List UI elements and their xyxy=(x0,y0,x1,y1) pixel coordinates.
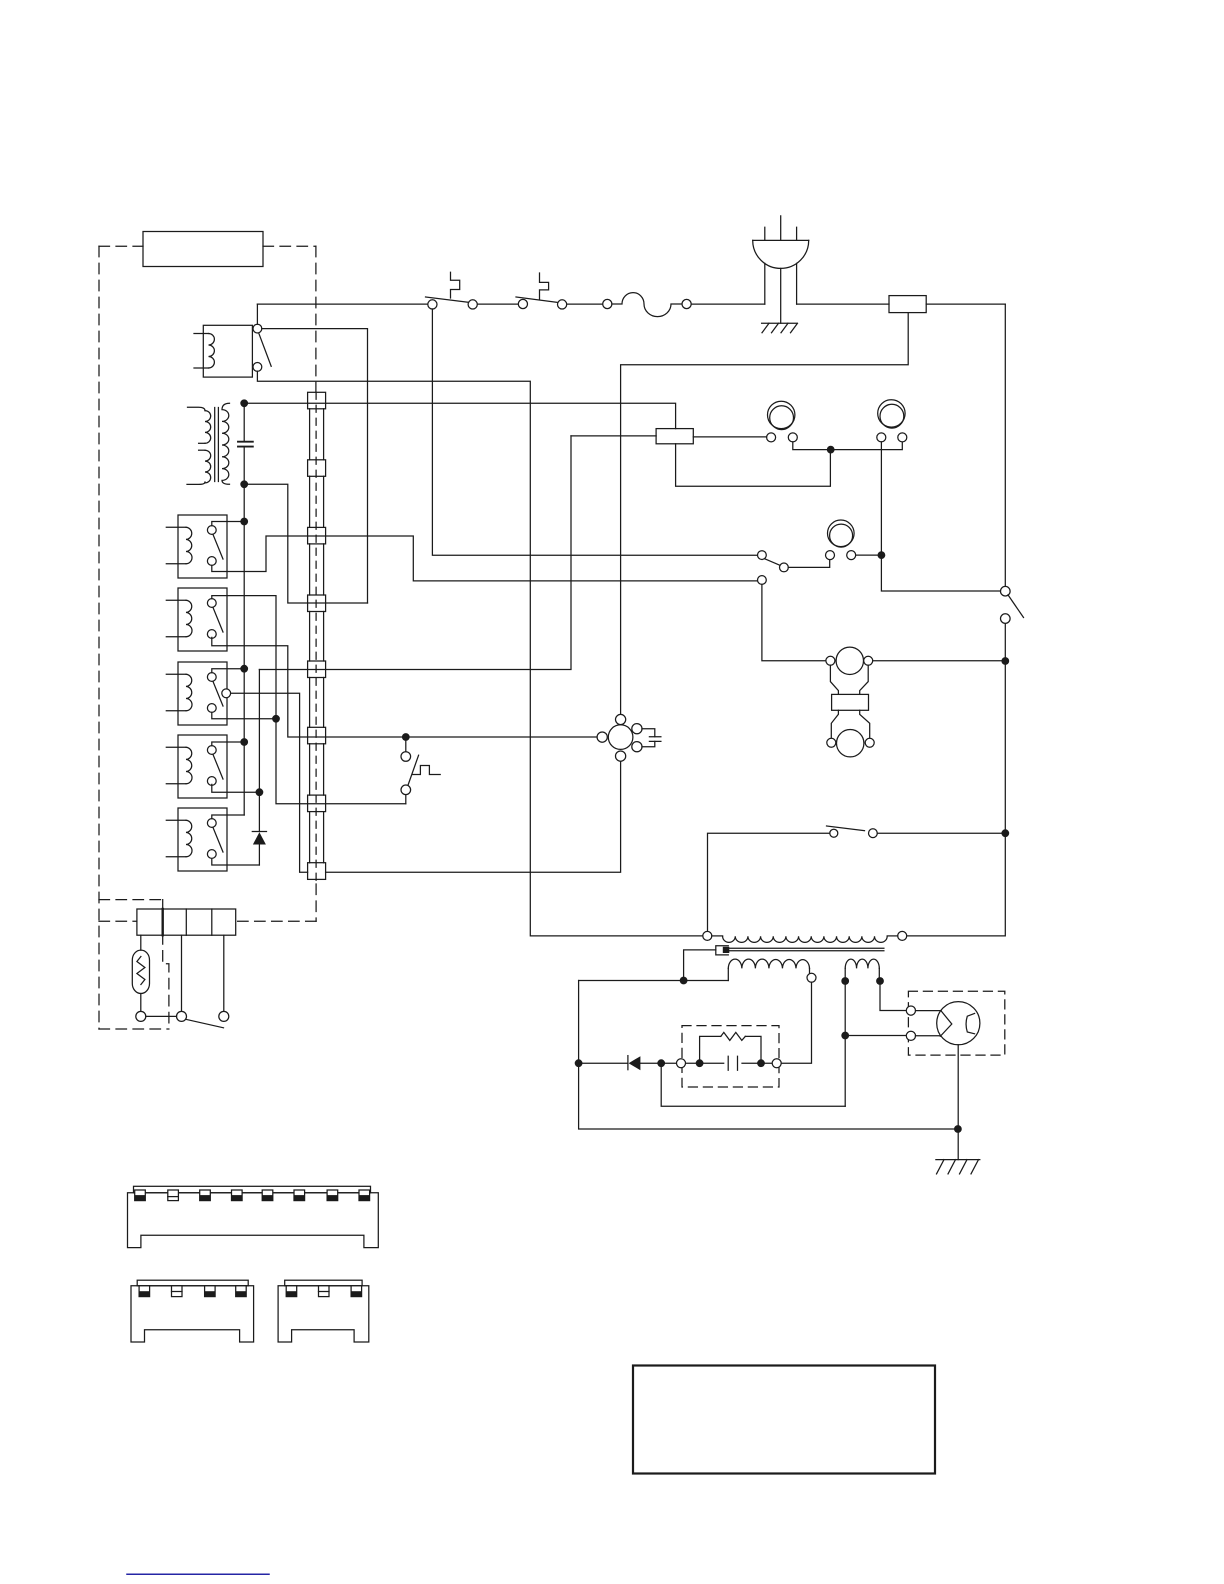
wire OL to node xyxy=(856,554,882,556)
wire RY2 NO to bus xyxy=(212,522,244,526)
wire HV return vertical xyxy=(579,981,958,1130)
relay RY5 xyxy=(166,735,227,798)
ground magnetron xyxy=(936,1160,980,1174)
wire TC1 to L1 xyxy=(693,436,766,438)
magnetron MG xyxy=(906,991,1005,1055)
wire RY6 NC to diode anode xyxy=(212,859,260,865)
pins CN-C xyxy=(139,1286,246,1297)
wire T1 bottom to CN-A pin4 xyxy=(244,484,367,603)
capacitor C1 xyxy=(238,442,253,447)
capacitor C2 HV assembly xyxy=(677,1026,782,1087)
power unit box xyxy=(143,232,263,267)
oven lamp OL xyxy=(826,520,856,560)
oven lamp switch SW4 xyxy=(758,551,789,585)
connector CN-A dashed centerline xyxy=(315,392,317,884)
wire SW6 to HV transformer xyxy=(708,833,830,931)
pins CN-B xyxy=(135,1190,370,1201)
wire T2 secondary to HV return xyxy=(579,980,729,982)
lamp L2 xyxy=(877,400,907,442)
core shield T2 xyxy=(684,946,730,981)
interlock switch SW2 xyxy=(516,273,567,309)
node RY2 xyxy=(240,518,248,526)
wire main relay bus vertical xyxy=(243,403,245,815)
node diode top xyxy=(256,788,264,796)
wire RY4 NO to bus xyxy=(212,669,244,673)
wire magnetron to ground xyxy=(957,1045,959,1160)
wire L1 to L2 xyxy=(793,442,903,450)
fuse F1 xyxy=(603,293,692,317)
wire NF bottom branch xyxy=(621,313,909,715)
pins CN-D xyxy=(286,1286,361,1297)
wire RY5 NC to diode node xyxy=(212,784,260,792)
wire FM to mains right xyxy=(873,660,1006,662)
wire relay RY1 NO branch to interlock net xyxy=(259,436,571,670)
node D2 cathode branch xyxy=(657,1059,665,1067)
link underline xyxy=(127,1573,269,1575)
wire filament return loop xyxy=(661,1063,845,1106)
note box xyxy=(633,1366,935,1474)
connector CN-B xyxy=(128,1186,379,1247)
node lamp junction xyxy=(827,446,835,454)
wire SW6 to mains right xyxy=(877,832,1005,834)
ground plug xyxy=(762,323,798,333)
fan motor FM assembly xyxy=(826,647,874,757)
wire RY3 NO to node A xyxy=(212,596,406,804)
wire filament leads xyxy=(845,981,906,1106)
thermal cutout TC1 xyxy=(656,429,693,444)
node C2 right xyxy=(757,1059,765,1067)
transformer T1 low voltage xyxy=(187,403,230,484)
connector CN-E strip xyxy=(137,909,236,935)
wire relay RY1 NC to HV transformer primary xyxy=(257,371,702,936)
wire HV rail xyxy=(579,982,812,1063)
connector CN-A xyxy=(308,392,326,879)
relay RY4 xyxy=(166,662,230,725)
wire L2 to lamp switch node xyxy=(881,442,1000,591)
wire RY2 NC to oven lamp switch NC xyxy=(212,536,758,581)
HV transformer T2 xyxy=(703,931,907,982)
wire TC1 left branch xyxy=(571,435,656,437)
node FM right xyxy=(1001,657,1009,665)
connector CN-C xyxy=(131,1280,254,1342)
flame sensor switch SW7 xyxy=(136,935,229,1028)
node L2 branch xyxy=(878,551,886,559)
wire RY4 NC to node A xyxy=(212,712,276,718)
wire RY3 NC to monitor circuit xyxy=(212,637,598,737)
monitor switch SW3 xyxy=(401,741,440,804)
node core ground xyxy=(680,977,688,985)
wire diode branch vertical xyxy=(258,670,260,866)
node RY5 NO xyxy=(240,738,248,746)
turntable motor M1 xyxy=(597,714,642,761)
wire SW4 common to oven lamp xyxy=(788,560,829,568)
node HV diode left xyxy=(575,1059,583,1067)
wire CN-A pin8 to turntable motor xyxy=(326,761,621,872)
wire T1 secondary top feed xyxy=(244,403,675,428)
wire RY6 NO to bus end xyxy=(212,815,244,819)
relay RY6 xyxy=(166,808,227,871)
node mains right door xyxy=(1001,829,1009,837)
door sensing switch SW6 xyxy=(827,826,878,838)
relay RY2 xyxy=(166,515,227,578)
plug P1 xyxy=(753,216,809,323)
wire mains top xyxy=(257,303,1005,305)
noise filter NF xyxy=(889,296,926,313)
node C2 left xyxy=(696,1059,704,1067)
diode D2 HV xyxy=(628,1056,641,1071)
node filament heater tap xyxy=(841,1032,849,1040)
wire mains right vertical xyxy=(907,304,1006,936)
thermistor TH1 xyxy=(132,935,149,1011)
node RY4 NO xyxy=(240,665,248,673)
wire SW4 NC riser to fan motor xyxy=(762,584,826,660)
cook switch SW5 xyxy=(1001,586,1024,623)
diode D1 xyxy=(252,832,266,845)
relay RY1 xyxy=(194,324,271,377)
node monitor switch top xyxy=(402,733,410,741)
capacitor C3 motor phase xyxy=(642,729,661,747)
node A xyxy=(272,715,280,723)
connector CN-D xyxy=(278,1280,369,1342)
wire SW1 to oven lamp switch NO xyxy=(432,309,757,555)
node filament right xyxy=(876,977,884,985)
wire RY5 NO to bus xyxy=(212,742,244,746)
wire relay RY1 NO contact to node xyxy=(262,329,368,603)
wire TC1 bottom loop xyxy=(676,444,831,487)
wire RY4 common to CN-A pin8 xyxy=(231,693,308,872)
node magnetron ground xyxy=(954,1125,962,1133)
wire relay RY1 common riser xyxy=(256,304,258,324)
control unit dashed enclosure xyxy=(99,246,316,1029)
interlock switch SW1 xyxy=(426,272,478,309)
lamp L1 xyxy=(767,401,798,442)
node T1 top xyxy=(240,399,248,407)
node T1 bottom xyxy=(240,480,248,488)
node filament left xyxy=(841,977,849,985)
relay RY3 xyxy=(166,588,227,651)
